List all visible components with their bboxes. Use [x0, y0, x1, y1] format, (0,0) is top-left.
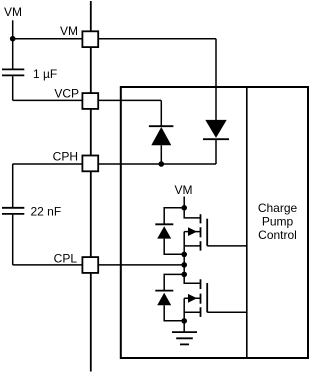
svg-text:VCP: VCP: [54, 87, 79, 101]
svg-text:VM: VM: [60, 24, 78, 38]
svg-text:Pump: Pump: [262, 215, 294, 229]
svg-text:CPH: CPH: [53, 150, 78, 164]
svg-text:Control: Control: [258, 228, 297, 242]
svg-text:CPL: CPL: [54, 252, 78, 266]
svg-text:Charge: Charge: [258, 201, 298, 215]
svg-text:VM: VM: [4, 5, 22, 19]
svg-text:1 µF: 1 µF: [33, 67, 57, 81]
svg-text:22 nF: 22 nF: [31, 204, 62, 218]
svg-text:VM: VM: [175, 183, 193, 197]
